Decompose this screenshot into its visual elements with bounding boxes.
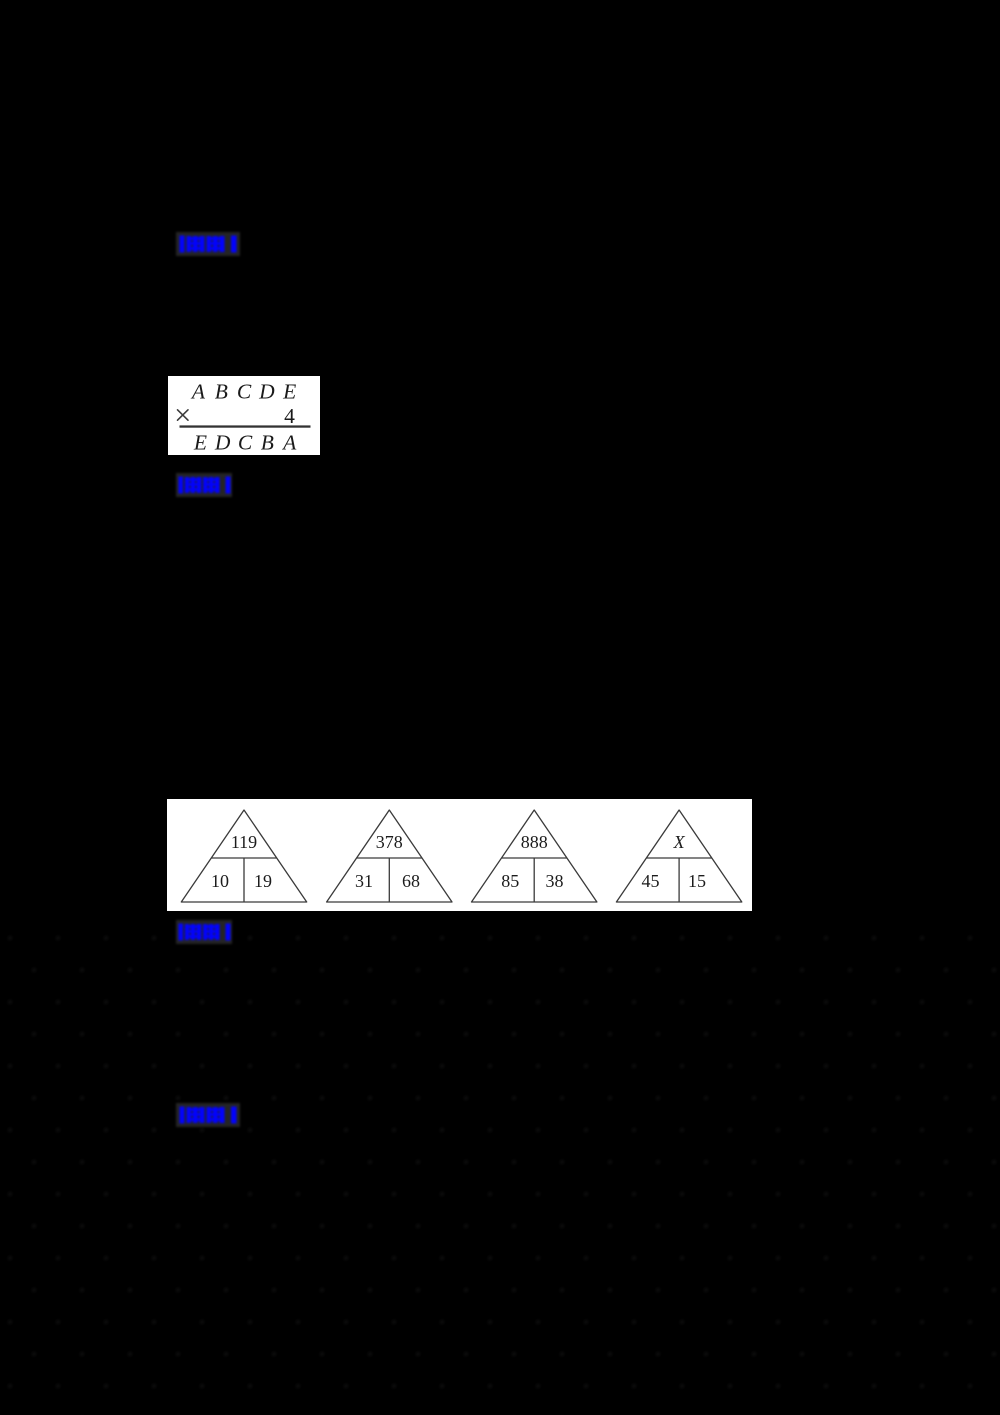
svg-text:85: 85	[501, 871, 519, 891]
svg-text:31: 31	[355, 871, 373, 891]
svg-text:15: 15	[688, 871, 706, 891]
svg-text:B: B	[215, 379, 228, 403]
svg-text:888: 888	[521, 832, 548, 852]
svg-text:119: 119	[231, 832, 257, 852]
svg-text:B: B	[261, 431, 274, 455]
svg-text:E: E	[193, 431, 207, 455]
svg-text:C: C	[238, 431, 253, 455]
svg-text:10: 10	[211, 871, 229, 891]
svg-text:4: 4	[284, 404, 295, 428]
svg-text:D: D	[214, 431, 231, 455]
svg-text:A: A	[281, 431, 297, 455]
svg-text:C: C	[237, 379, 252, 403]
svg-text:68: 68	[402, 871, 420, 891]
svg-text:E: E	[282, 379, 296, 403]
svg-text:19: 19	[254, 871, 272, 891]
svg-text:A: A	[190, 379, 206, 403]
svg-text:45: 45	[642, 871, 660, 891]
svg-text:D: D	[258, 379, 275, 403]
svg-text:X: X	[673, 832, 686, 852]
svg-text:378: 378	[376, 832, 403, 852]
svg-text:38: 38	[546, 871, 564, 891]
